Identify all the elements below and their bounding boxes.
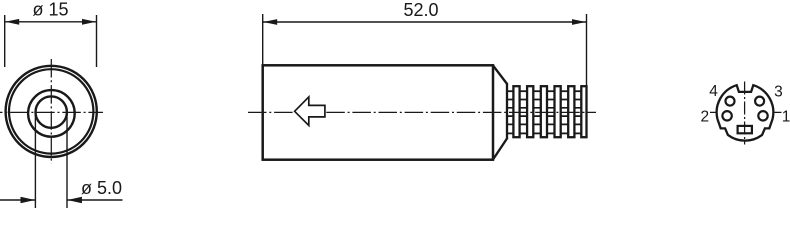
chamfer top line body to boot	[493, 66, 508, 85]
dimension ø5.0 tail line left	[0, 199, 35, 201]
vertical centerline left view	[50, 59, 52, 164]
dimension 52.0 line	[263, 21, 587, 23]
pin hole 3	[755, 97, 764, 106]
middle circle (boss)	[28, 90, 75, 137]
chamfer bottom line body to boot	[493, 138, 508, 160]
dimension ø15 line	[5, 21, 97, 23]
pin hole 4	[726, 97, 735, 106]
horizontal centerline middle view	[248, 111, 596, 113]
svg-text:2: 2	[700, 109, 709, 126]
boot rib 4	[555, 86, 561, 137]
pin hole 1	[758, 111, 767, 120]
svg-text:ø 5.0: ø 5.0	[81, 178, 122, 198]
boot rib 6 (end)	[581, 86, 586, 137]
key slot rectangle	[738, 126, 752, 133]
boot valley rung line 1	[507, 99, 586, 101]
dimension ø5.0 arrowhead left (outside, pointing right)	[21, 197, 36, 204]
dimension 52.0 arrowhead left	[263, 19, 277, 25]
dimension 52.0 arrowhead right	[572, 19, 586, 25]
horizontal centerline right view	[710, 111, 782, 113]
boot valley rung line 4	[507, 123, 586, 125]
dimension ø5.0 extension line left	[34, 113, 36, 209]
ring circle (shell thickness)	[9, 69, 93, 153]
svg-text:4: 4	[709, 83, 718, 100]
svg-text:1: 1	[782, 109, 790, 126]
boot rib 2	[527, 86, 533, 137]
boot valley rung line 2	[507, 107, 586, 109]
plug body rectangle	[263, 65, 493, 159]
dimension 52.0 extension line right	[586, 14, 588, 100]
horizontal centerline left view	[0, 111, 103, 113]
svg-text:ø 15: ø 15	[32, 0, 68, 20]
boot valley band (corrugation background)	[507, 91, 586, 133]
small circle (cable hole ø5)	[36, 96, 67, 127]
outer circle of connector rear	[6, 66, 97, 157]
boot front face line	[506, 84, 508, 139]
boot valley rung line 3	[507, 115, 586, 117]
dimension ø15 arrowhead left	[5, 19, 19, 25]
dimension ø15 extension line left	[4, 15, 6, 67]
dimension ø5.0 arrowhead right (outside, pointing left)	[67, 197, 82, 204]
direction arrow (outline, pointing left)	[295, 97, 325, 126]
dimension ø15 extension line right	[96, 15, 98, 67]
dimension 52.0 extension line left	[262, 14, 264, 64]
boot rib 5	[568, 86, 574, 137]
dimension ø15 arrowhead right	[82, 19, 96, 25]
boot rib 1	[513, 86, 519, 137]
dimension ø5.0 line right	[68, 199, 123, 201]
svg-text:3: 3	[774, 83, 783, 100]
svg-text:52.0: 52.0	[403, 0, 438, 20]
dimension ø5.0 extension line right	[66, 113, 68, 209]
pin hole 2	[722, 111, 731, 120]
shell outline with top notch and side steps	[717, 85, 774, 140]
boot rib 3	[541, 86, 547, 137]
vertical centerline right view	[744, 82, 746, 145]
